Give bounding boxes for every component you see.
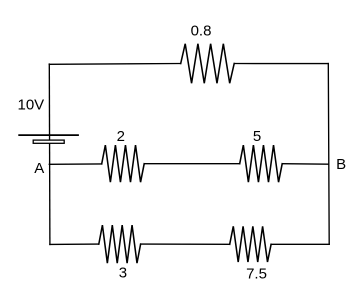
resistor 7.5 bottom branch [230, 226, 271, 262]
resistor 5 middle branch [240, 145, 283, 182]
wire top left lead [49, 63, 180, 66]
svg-text:5: 5 [253, 128, 261, 145]
svg-text:A: A [34, 160, 44, 177]
wire bottom right lead [271, 243, 329, 245]
resistor 2 middle branch [102, 145, 145, 182]
wire node A lead [49, 163, 101, 165]
battery V1 negative plate [33, 140, 64, 143]
svg-text:3: 3 [119, 264, 127, 281]
wire middle between resistors [144, 163, 240, 165]
resistor 3 bottom branch [99, 225, 141, 263]
wire bottom middle [141, 243, 230, 245]
svg-text:0.8: 0.8 [191, 23, 212, 40]
wire top right lead [234, 63, 328, 65]
svg-text:10V: 10V [18, 96, 45, 113]
svg-text:B: B [336, 156, 346, 173]
svg-text:7.5: 7.5 [246, 266, 267, 283]
wire bottom left lead [50, 243, 99, 245]
resistor 0.8 top branch [181, 44, 235, 83]
svg-text:2: 2 [117, 128, 125, 145]
battery V1 positive plate [18, 134, 79, 136]
wire node B lead [282, 163, 328, 166]
wire right vertical branch [327, 64, 330, 245]
wire left vertical branch [48, 64, 51, 244]
